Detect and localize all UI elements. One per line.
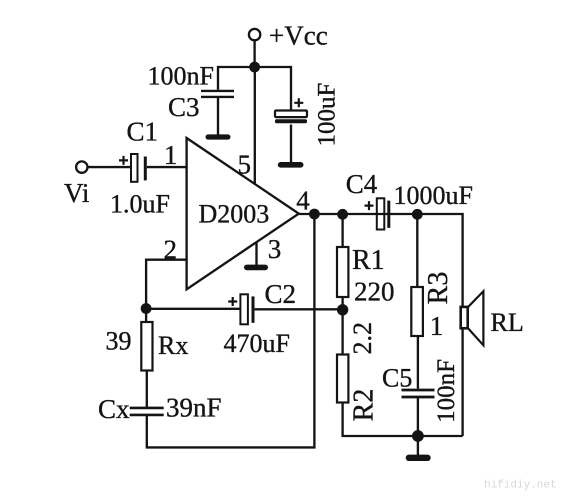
svg-text:C5: C5	[382, 364, 412, 393]
wire C3 top lead	[217, 66, 219, 90]
wire C5 bottom lead	[417, 397, 419, 436]
ground 100uF	[278, 162, 304, 168]
capacitor C1	[131, 154, 145, 182]
svg-text:R3: R3	[423, 272, 454, 305]
svg-text:4: 4	[296, 186, 310, 216]
svg-text:5: 5	[238, 150, 252, 180]
ground bottom	[406, 455, 431, 461]
node bottom junction	[412, 430, 424, 442]
ground C3	[206, 134, 231, 139]
wire pin 1	[147, 166, 188, 168]
capacitor 100uF plate bottom	[275, 119, 307, 123]
svg-text:Cx: Cx	[98, 394, 130, 424]
svg-text:2.2: 2.2	[348, 322, 377, 355]
wire R2 bottom lead	[343, 403, 463, 437]
svg-text:Rx: Rx	[158, 331, 188, 360]
wire pin 2	[146, 260, 188, 309]
resistor R3	[411, 287, 423, 336]
svg-text:hifidiy.net: hifidiy.net	[484, 480, 557, 492]
capacitor C4	[377, 198, 389, 229]
svg-text:+Vcc: +Vcc	[269, 21, 328, 51]
svg-text:39nF: 39nF	[166, 393, 222, 423]
svg-text:RL: RL	[491, 308, 524, 337]
capacitor C2	[240, 294, 253, 324]
resistor Rx	[141, 322, 152, 371]
polarity plus C2	[228, 297, 237, 306]
node output junction	[309, 209, 320, 220]
wire pin2 junction to Rx	[145, 309, 147, 323]
wire Vcc stem	[253, 40, 255, 67]
wire R2 top lead	[341, 310, 343, 355]
polarity plus 100uF	[294, 98, 303, 107]
wire top rail	[218, 66, 291, 68]
wire pin 5	[254, 67, 256, 184]
svg-text:100uF: 100uF	[314, 83, 341, 147]
svg-text:C2: C2	[265, 279, 297, 309]
capacitor 100uF plate top (electrolytic +)	[275, 111, 307, 118]
svg-text:100nF: 100nF	[148, 62, 214, 91]
wire RL bottom lead	[461, 328, 463, 436]
svg-text:C4: C4	[346, 169, 378, 199]
wire output pin 4	[299, 213, 463, 215]
svg-text:R2: R2	[348, 389, 379, 422]
svg-text:220: 220	[354, 277, 395, 307]
polarity plus C4	[365, 201, 374, 210]
polarity plus C1	[119, 156, 128, 165]
svg-text:1.0uF: 1.0uF	[110, 190, 170, 219]
wire Rx to Cx	[146, 371, 148, 408]
capacitor C3	[201, 91, 234, 97]
svg-text:2: 2	[164, 235, 178, 265]
resistor R2	[337, 355, 348, 403]
ground pin 3	[244, 265, 268, 271]
svg-text:R1: R1	[352, 245, 385, 276]
wire input	[87, 166, 131, 168]
terminal +Vcc	[249, 29, 260, 40]
wire C3 bottom lead	[217, 97, 219, 135]
svg-text:1000uF: 1000uF	[394, 181, 473, 210]
wire 100uF top lead	[290, 67, 291, 111]
node C4 right junction	[412, 209, 423, 220]
wire pin 3	[255, 242, 257, 266]
terminal Vi	[76, 161, 87, 172]
node Vcc junction	[249, 62, 260, 73]
svg-text:D2003: D2003	[199, 200, 270, 229]
svg-text:100nF: 100nF	[433, 359, 460, 423]
svg-text:1: 1	[430, 311, 444, 341]
node R1R2 junction	[337, 304, 348, 315]
node R1 top junction	[337, 209, 348, 220]
capacitor Cx	[130, 408, 164, 415]
svg-text:1: 1	[164, 140, 178, 170]
op-amp U1 D2003	[187, 138, 299, 289]
wire R3 top lead	[416, 214, 418, 287]
node pin2 junction	[141, 303, 152, 314]
wire ground stem bottom	[417, 436, 419, 455]
svg-text:3: 3	[268, 234, 282, 264]
wire 100uF bottom lead	[290, 125, 292, 164]
svg-text:Vi: Vi	[64, 178, 89, 208]
wire RL top lead	[462, 214, 463, 307]
svg-text:39: 39	[106, 327, 132, 356]
svg-text:470uF: 470uF	[224, 329, 290, 358]
svg-text:C3: C3	[168, 92, 200, 122]
wire R3 to C5	[417, 336, 419, 389]
wire C2 row	[146, 308, 240, 310]
wire R1 to junction	[341, 297, 343, 310]
wire feedback vertical	[147, 214, 315, 447]
svg-text:C1: C1	[127, 117, 159, 147]
capacitor C5	[402, 390, 435, 397]
speaker RL	[461, 291, 484, 345]
resistor R1	[337, 247, 348, 297]
wire C2 to R1R2 junction	[255, 308, 343, 310]
wire R1 top lead	[341, 214, 343, 247]
